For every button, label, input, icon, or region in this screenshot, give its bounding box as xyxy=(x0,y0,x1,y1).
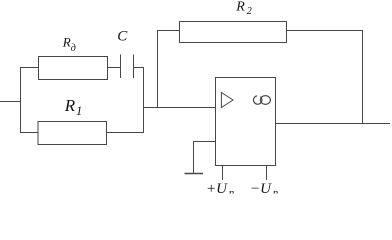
wire to R1 xyxy=(20,132,38,134)
wire feedback right vertical xyxy=(362,30,364,124)
op-amp U1 infinity symbol xyxy=(254,96,271,105)
ground bar xyxy=(185,173,204,175)
op-amp U1 body xyxy=(216,78,276,166)
wire Rд to C xyxy=(107,67,120,69)
wire to Rд xyxy=(20,67,39,69)
wire input left xyxy=(0,101,21,103)
wire C to node A xyxy=(134,67,144,69)
bottom crop mask xyxy=(0,194,392,196)
pin -U power xyxy=(266,165,268,180)
resistor R2 xyxy=(180,22,287,43)
wire non-inverting input xyxy=(194,141,216,143)
svg-text:R1: R1 xyxy=(64,96,82,118)
wire R2 to output vertical xyxy=(286,30,363,32)
resistor Rд xyxy=(39,57,108,80)
svg-text:R2: R2 xyxy=(235,0,252,17)
wire inverting input xyxy=(143,107,216,109)
wire output xyxy=(276,123,391,125)
svg-text:Rд: Rд xyxy=(62,35,76,54)
wire branch vertical xyxy=(20,67,22,133)
wire feedback tap vertical xyxy=(157,31,159,109)
resistor R1 xyxy=(38,122,107,145)
wire ground vertical xyxy=(193,141,195,174)
capacitor C left plate xyxy=(120,55,122,79)
pin +U power xyxy=(222,165,224,180)
capacitor C right plate xyxy=(133,55,135,79)
wire feedback top xyxy=(157,30,180,32)
op-amp U1 triangle symbol xyxy=(221,93,233,108)
node A vertical xyxy=(143,67,145,133)
svg-text:C: C xyxy=(117,28,128,44)
wire R1 to node A xyxy=(107,132,144,134)
